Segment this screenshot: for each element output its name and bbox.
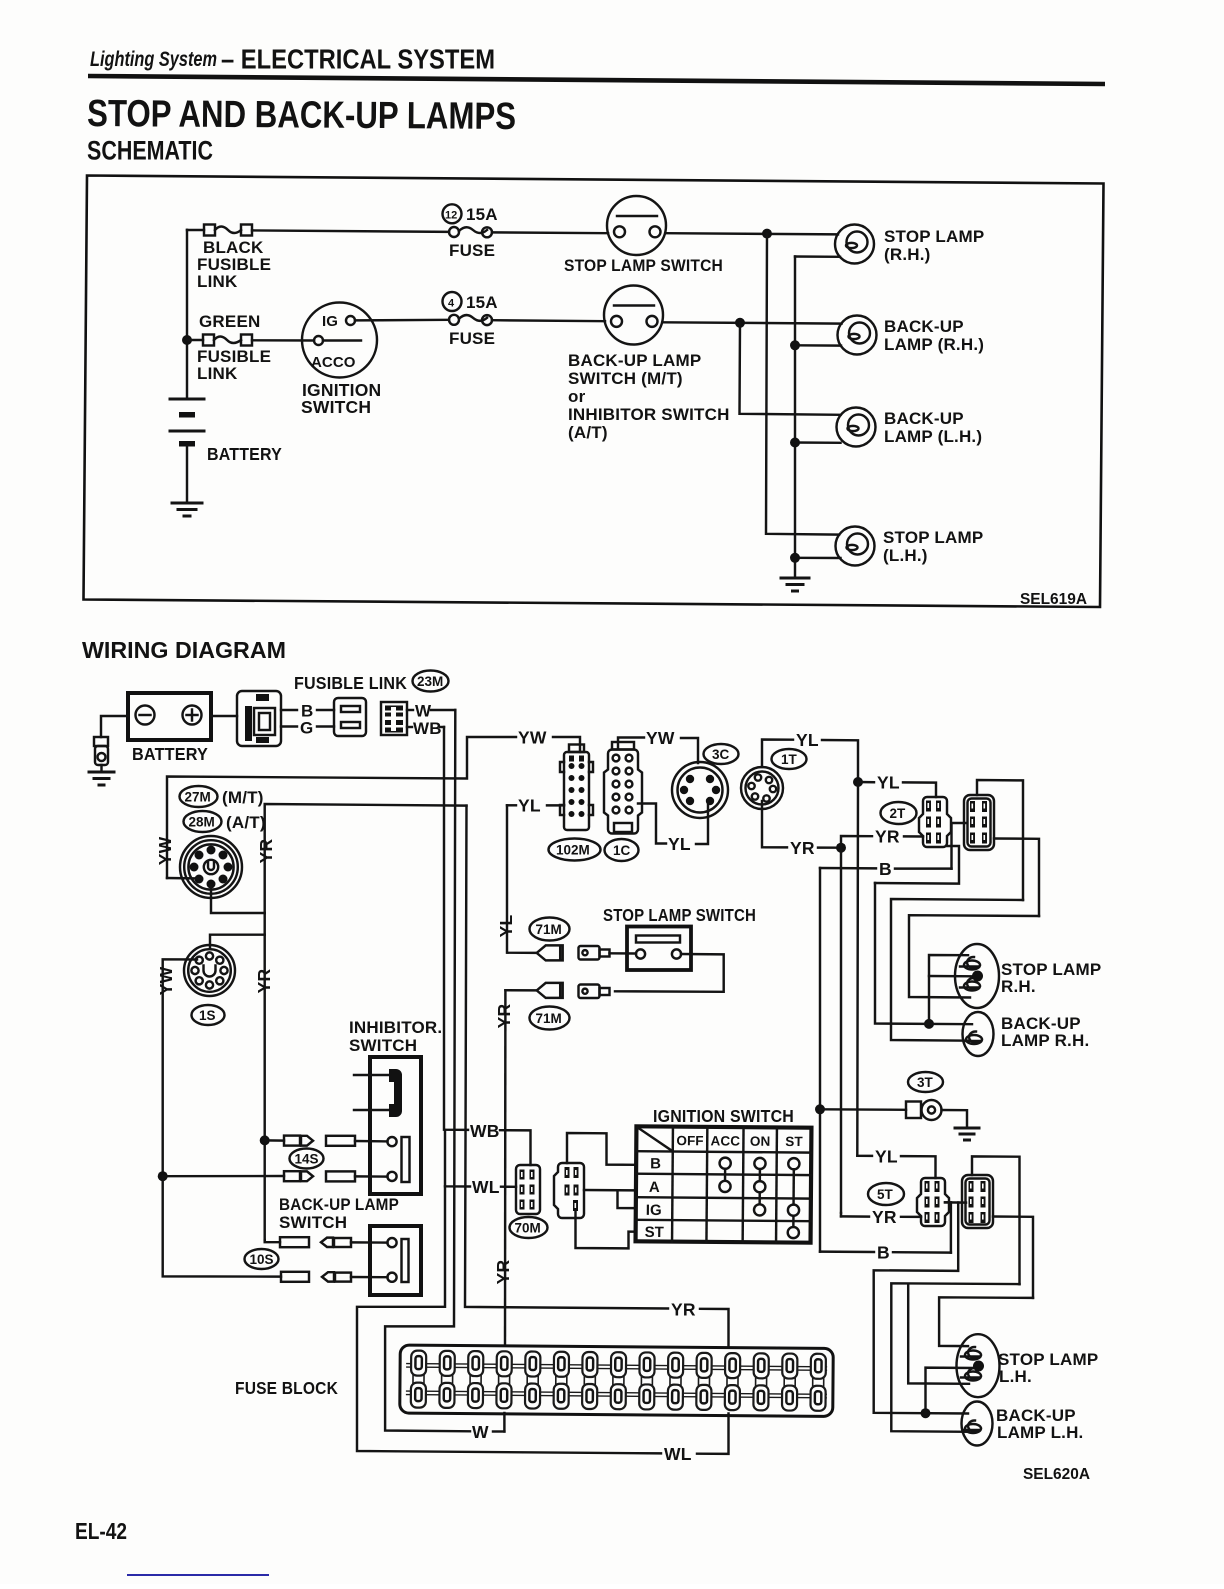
svg-text:SEL619A: SEL619A xyxy=(1020,591,1087,608)
male terminal YR xyxy=(579,985,610,999)
wire vertical to backup lamp LH xyxy=(740,323,841,415)
connector 102M xyxy=(560,745,593,831)
svg-text:BACK-UP: BACK-UP xyxy=(884,317,964,336)
node 3T junction xyxy=(815,1104,825,1114)
wire YR up to 2T row xyxy=(841,836,872,848)
wire B to riser xyxy=(895,867,952,869)
wire B long vertical xyxy=(819,868,821,1252)
svg-text:WB: WB xyxy=(470,1121,500,1141)
connector 70M xyxy=(516,1165,540,1214)
svg-text:WIRING DIAGRAM: WIRING DIAGRAM xyxy=(82,637,286,663)
label oval 28M and (A/T) xyxy=(184,811,266,832)
node junction top xyxy=(762,229,772,239)
connector 71M bullet YR xyxy=(537,983,563,998)
node YR junction xyxy=(836,843,846,853)
wire YR to 5T row xyxy=(840,1213,842,1216)
connector pair 14S row2 xyxy=(284,1171,355,1181)
wire ign A row xyxy=(584,1189,636,1192)
svg-text:B: B xyxy=(879,859,892,879)
svg-text:ACCO: ACCO xyxy=(311,354,356,371)
svg-text:W: W xyxy=(472,1422,489,1442)
svg-text:1S: 1S xyxy=(199,1008,216,1023)
connector pair 10S row1 xyxy=(280,1237,351,1247)
battery ground terminal xyxy=(94,737,108,771)
svg-text:STOP LAMP: STOP LAMP xyxy=(883,528,983,547)
ground (3T) xyxy=(955,1128,979,1140)
node ground bus j1 xyxy=(790,340,800,350)
svg-text:WB: WB xyxy=(413,719,442,738)
wire YR 1T drop xyxy=(762,801,787,847)
wire YL 1C to 3C xyxy=(638,804,666,844)
wire battery to fusible link xyxy=(211,715,237,717)
svg-text:YR: YR xyxy=(493,1259,513,1284)
wire 10S row2 lead xyxy=(163,1176,281,1276)
wire B dash xyxy=(317,709,334,711)
svg-text:YW: YW xyxy=(646,728,675,748)
node ground bus j3 xyxy=(790,553,800,563)
svg-text:70M: 70M xyxy=(515,1221,541,1236)
svg-text:102M: 102M xyxy=(556,843,590,858)
wire battery to green link xyxy=(187,339,203,341)
wire top row to fuse xyxy=(252,230,449,232)
wire YR into 2T xyxy=(904,835,923,838)
wire staircase backup RH top xyxy=(891,899,1023,1041)
wire 27M bottom to YR riser xyxy=(211,885,265,913)
connector 6pin A xyxy=(964,795,994,850)
wire stop LH lower terminal xyxy=(795,557,841,560)
connector 1S round xyxy=(184,945,235,996)
wire IG to fuse 4 xyxy=(355,319,449,322)
wire YR-S vertical xyxy=(263,913,265,1240)
svg-text:LAMP (L.H.): LAMP (L.H.) xyxy=(884,427,982,446)
svg-text:LINK: LINK xyxy=(197,364,238,383)
wire B to 6pinB riser xyxy=(893,1251,951,1254)
wire 14S row2 lead xyxy=(163,1175,284,1178)
svg-text:FUSE: FUSE xyxy=(449,241,495,260)
wire ign B row xyxy=(567,1133,636,1165)
svg-text:(M/T): (M/T) xyxy=(222,788,264,807)
svg-text:IG: IG xyxy=(322,313,338,330)
wire YR 71M lead xyxy=(505,989,536,992)
inhibitor terminal 2 xyxy=(387,1172,396,1181)
svg-text:YW: YW xyxy=(156,966,176,995)
label 102M oval xyxy=(549,839,601,861)
wire backup LH lower terminal xyxy=(795,441,841,444)
svg-text:IG: IG xyxy=(646,1202,662,1219)
header: Lighting System - ELECTRICAL SYSTEM xyxy=(90,44,495,75)
stop lamp switch box (wiring) xyxy=(627,927,691,971)
wire battery negative lead xyxy=(101,716,128,737)
svg-text:EL-42: EL-42 xyxy=(75,1518,127,1544)
backup lamp switch (schematic) xyxy=(604,286,663,345)
svg-text:IGNITION SWITCH: IGNITION SWITCH xyxy=(653,1106,794,1126)
svg-text:STOP LAMP SWITCH: STOP LAMP SWITCH xyxy=(564,256,723,275)
wire fuse to stop lamp switch xyxy=(492,231,608,234)
node ground bus j2 xyxy=(790,438,800,448)
wire YL into 5T top xyxy=(901,1156,936,1178)
svg-text:STOP LAMP SWITCH: STOP LAMP SWITCH xyxy=(603,905,756,925)
svg-text:INHIBITOR.: INHIBITOR. xyxy=(349,1018,442,1037)
node junction row2 xyxy=(735,318,745,328)
svg-text:FUSIBLE LINK: FUSIBLE LINK xyxy=(294,673,407,693)
svg-text:10S: 10S xyxy=(250,1252,274,1267)
wire 1S top to YR bus xyxy=(210,935,265,948)
wire ground bus vertical xyxy=(794,257,796,578)
svg-text:Lighting System: Lighting System xyxy=(90,48,217,71)
svg-text:INHIBITOR SWITCH: INHIBITOR SWITCH xyxy=(568,405,730,424)
svg-text:1T: 1T xyxy=(781,752,798,767)
node backup RH feed junction xyxy=(924,1019,934,1029)
wire staircase stop RH bottom xyxy=(909,915,1039,997)
fusible link mate connector xyxy=(334,698,366,736)
svg-text:28M: 28M xyxy=(189,815,215,830)
svg-text:B: B xyxy=(877,1242,890,1262)
wire stop RH center terminal xyxy=(929,975,974,978)
wire 3T to ground xyxy=(942,1110,968,1127)
connector 71M bullet YL xyxy=(537,945,563,960)
svg-text:YR: YR xyxy=(790,838,815,858)
svg-text:SEL620A: SEL620A xyxy=(1023,1466,1090,1483)
wire YL long vertical xyxy=(856,782,859,1156)
ignition switch (schematic) xyxy=(302,303,377,378)
wire WL drop and label xyxy=(445,1130,470,1187)
connector 27M/28M round xyxy=(180,836,242,898)
label oval 27M and (M/T) xyxy=(180,786,264,807)
node 14S top junction xyxy=(260,1135,270,1145)
wire staircase stop LH bottom xyxy=(908,1284,969,1384)
backup lamp switch box xyxy=(370,1226,421,1295)
fuse block fuses xyxy=(411,1351,426,1408)
svg-text:YR: YR xyxy=(875,827,900,847)
wire WL routing bus xyxy=(357,1186,661,1453)
backup lamp LH bulb (schematic) xyxy=(837,408,876,447)
connector pair 10S row2 xyxy=(281,1272,351,1282)
wire 6pinA mid pin B xyxy=(952,823,967,869)
wire green link to ignition switch xyxy=(252,339,314,342)
wire fuse to backup switch xyxy=(492,320,605,321)
wire riser to mid pins xyxy=(945,1202,951,1252)
connector 5T xyxy=(917,1178,949,1226)
node backup LH feed junction xyxy=(921,1408,931,1418)
wire YR 71M vertical to fuse block xyxy=(504,990,507,1345)
wire YL into 2T top xyxy=(903,782,936,797)
svg-text:23M: 23M xyxy=(417,674,443,689)
wire 14S row1 to inhibitor xyxy=(355,1140,388,1143)
svg-text:B: B xyxy=(650,1155,661,1172)
wire YR vertical bus xyxy=(465,806,668,1309)
label 1T oval xyxy=(772,749,807,769)
wire YR into 5T xyxy=(901,1216,921,1219)
node 14S bottom junction xyxy=(158,1171,168,1181)
wire vertical to stop lamp LH xyxy=(766,234,839,535)
schematic frame box xyxy=(84,176,1104,608)
wire YL bus to 71M xyxy=(507,805,537,953)
wire YL 1T riser xyxy=(762,740,793,768)
svg-text:YR: YR xyxy=(671,1300,696,1320)
svg-text:LAMP L.H.: LAMP L.H. xyxy=(997,1423,1084,1442)
label 3C oval xyxy=(704,744,739,764)
wire ign ST row xyxy=(576,1211,637,1248)
stop lamp RH bulb xyxy=(955,944,999,1008)
connector 3C round xyxy=(672,762,728,818)
svg-text:FUSE BLOCK: FUSE BLOCK xyxy=(235,1378,338,1398)
battery (schematic) xyxy=(170,399,204,502)
svg-text:15A: 15A xyxy=(466,205,498,224)
wire B bottom row xyxy=(820,1250,874,1253)
svg-text:SWITCH (M/T): SWITCH (M/T) xyxy=(568,369,683,388)
svg-text:SWITCH: SWITCH xyxy=(279,1213,347,1232)
svg-text:G: G xyxy=(300,719,313,738)
wire 6pinB top feed xyxy=(972,1156,1020,1284)
svg-text:YW: YW xyxy=(155,836,175,865)
label 1C oval xyxy=(605,839,639,861)
label 10S oval xyxy=(245,1249,279,1269)
label 14S oval xyxy=(290,1149,324,1169)
wire stop RH top terminal xyxy=(929,955,968,1024)
svg-text:or: or xyxy=(568,387,586,406)
wire YR label lead (5T) xyxy=(841,1215,869,1218)
svg-text:5T: 5T xyxy=(877,1187,894,1202)
label 71M oval top xyxy=(530,918,570,941)
wire 1S left pin down xyxy=(163,959,197,1176)
label 71M oval bottom xyxy=(530,1007,570,1030)
svg-text:YL: YL xyxy=(668,834,691,854)
wire YW to 3C xyxy=(681,738,698,763)
svg-text:WL: WL xyxy=(664,1444,692,1464)
wire switch to backup lamp RH xyxy=(663,322,842,323)
wire staircase backup LH bottom xyxy=(891,1283,1019,1432)
svg-text:BATTERY: BATTERY xyxy=(132,744,208,764)
wire 10S row2 to switch xyxy=(351,1276,388,1279)
label 3T oval xyxy=(908,1072,943,1092)
wire W bottom label segment xyxy=(493,1430,504,1432)
ground (schematic right) xyxy=(781,578,809,591)
svg-text:14S: 14S xyxy=(295,1152,319,1167)
wire 14S row1 lead xyxy=(265,1139,284,1142)
stop lamp RH bulb (schematic) xyxy=(835,225,874,264)
fuse block xyxy=(400,1345,834,1416)
backup switch terminal 2 xyxy=(387,1273,396,1282)
svg-text:71M: 71M xyxy=(536,922,562,937)
svg-text:1C: 1C xyxy=(613,843,631,858)
wire YW riser from 27M xyxy=(167,737,516,878)
connector W/WB xyxy=(381,702,407,735)
ground (battery schematic) xyxy=(172,503,202,516)
wire G lead xyxy=(281,725,297,727)
wire YR into fuse block xyxy=(700,1309,729,1346)
wire W vertical bus xyxy=(385,710,470,1431)
wire YW 1C riser xyxy=(618,738,644,750)
wire B row xyxy=(820,867,876,870)
footer blue rule xyxy=(127,1574,269,1576)
svg-text:– ELECTRICAL SYSTEM: – ELECTRICAL SYSTEM xyxy=(221,44,495,75)
svg-text:15A: 15A xyxy=(466,293,498,312)
label oval 23M xyxy=(413,671,449,692)
backup lamp LH bulb xyxy=(962,1402,993,1446)
wire WL to 70M xyxy=(501,1185,516,1188)
wire 14S row2 to inhibitor xyxy=(355,1175,388,1178)
svg-text:(A/T): (A/T) xyxy=(226,813,266,832)
svg-text:STOP LAMP: STOP LAMP xyxy=(884,227,984,246)
fuse elements xyxy=(411,1351,826,1411)
ground (battery wiring) xyxy=(89,772,114,785)
wire 6pinA bottom-right pin xyxy=(994,839,1039,917)
svg-text:BACK-UP LAMP: BACK-UP LAMP xyxy=(279,1195,399,1214)
svg-text:ST: ST xyxy=(785,1134,803,1149)
svg-text:A: A xyxy=(649,1179,660,1196)
svg-text:BACK-UP: BACK-UP xyxy=(884,409,964,428)
backup lamp RH bulb (schematic) xyxy=(838,316,877,355)
connector 6pin B xyxy=(962,1175,993,1228)
svg-text:YW: YW xyxy=(518,728,547,748)
wire stop RH lower terminal xyxy=(795,255,840,258)
wire 5T-6pinB mid link xyxy=(945,1201,966,1204)
svg-text:OFF: OFF xyxy=(676,1133,703,1148)
svg-text:YR: YR xyxy=(872,1207,897,1227)
wire to 3T terminal xyxy=(820,1108,906,1111)
wire 6pinA top feed xyxy=(977,780,1023,900)
wire W into fuse block xyxy=(503,1413,505,1432)
stop lamp LH bulb (schematic) xyxy=(836,527,875,566)
wire WB lead xyxy=(407,726,412,728)
ignition harness connector xyxy=(554,1163,584,1218)
svg-text:YR: YR xyxy=(256,838,276,863)
wire 10S row1 to switch xyxy=(351,1241,388,1244)
wire YL into 3C bottom xyxy=(696,801,708,844)
svg-text:YL: YL xyxy=(877,773,900,793)
wire WB to corner xyxy=(440,726,444,728)
svg-text:YR: YR xyxy=(494,1003,514,1028)
svg-text:12: 12 xyxy=(445,210,457,222)
svg-text:R.H.: R.H. xyxy=(1001,977,1036,996)
wire YL 102M lead xyxy=(507,804,516,806)
label 1S oval xyxy=(192,1005,225,1025)
wire YL into 102M xyxy=(547,804,564,806)
svg-text:L.H.: L.H. xyxy=(999,1367,1032,1386)
svg-text:BACK-UP LAMP: BACK-UP LAMP xyxy=(568,351,701,370)
connector 2T xyxy=(919,797,951,847)
svg-text:4: 4 xyxy=(448,298,455,310)
node battery junction xyxy=(182,335,192,345)
inhibitor switch box xyxy=(370,1057,421,1194)
fuse 4 15A xyxy=(443,292,498,348)
wire staircase stub xyxy=(875,846,959,884)
wire backup RH lower terminal xyxy=(795,344,841,347)
wire 27M left pin xyxy=(167,877,201,880)
wire YR long vertical xyxy=(840,848,842,1213)
connector 1T round xyxy=(741,767,783,809)
wire stop LH center riser xyxy=(926,1368,976,1414)
connector 1C xyxy=(604,742,642,834)
wire staircase stop LH top xyxy=(939,1297,1033,1346)
svg-text:27M: 27M xyxy=(185,790,211,805)
svg-text:YL: YL xyxy=(796,730,819,750)
wire G dash xyxy=(317,725,334,727)
wire WL into fuse block xyxy=(697,1414,729,1454)
wire 10S row1 lead xyxy=(265,1240,280,1242)
svg-text:LAMP (R.H.): LAMP (R.H.) xyxy=(884,335,984,354)
wire B lead xyxy=(281,709,297,711)
svg-text:LINK: LINK xyxy=(197,272,238,291)
svg-text:YL: YL xyxy=(518,796,541,816)
connector pair 14S row1 xyxy=(284,1136,355,1146)
wire switch to stop lamp RH xyxy=(666,233,839,234)
inhibitor terminal 1 xyxy=(387,1137,396,1146)
stop lamp switch (schematic) xyxy=(607,196,666,255)
header rule xyxy=(88,76,1105,84)
wire YL branch to 2T xyxy=(858,781,874,784)
label 5T oval xyxy=(868,1183,904,1205)
svg-text:STOP AND BACK-UP LAMPS: STOP AND BACK-UP LAMPS xyxy=(87,93,516,138)
terminal 3T xyxy=(906,1100,942,1120)
svg-text:W: W xyxy=(415,702,432,721)
inhibitor switch contact bar xyxy=(354,1069,402,1117)
svg-text:3C: 3C xyxy=(712,747,730,762)
svg-text:SCHEMATIC: SCHEMATIC xyxy=(87,136,213,166)
svg-text:3T: 3T xyxy=(917,1075,934,1090)
svg-text:(A/T): (A/T) xyxy=(568,423,608,442)
wire YR to junction xyxy=(818,846,841,849)
wire stop lamp switch return xyxy=(615,954,724,992)
ignition switch table xyxy=(636,1126,812,1242)
wire YW into 102M xyxy=(553,737,580,752)
svg-text:YL: YL xyxy=(496,915,516,938)
label 70M oval xyxy=(510,1217,548,1238)
stop lamp LH bulb xyxy=(957,1334,1000,1397)
wire YL to bus corner xyxy=(822,740,858,782)
fuse 12 15A xyxy=(443,204,498,260)
svg-text:(L.H.): (L.H.) xyxy=(883,546,928,565)
wire battery bus vertical xyxy=(186,230,188,398)
svg-text:ST: ST xyxy=(645,1224,665,1241)
svg-text:LAMP R.H.: LAMP R.H. xyxy=(1001,1031,1089,1050)
black fusible link symbol xyxy=(204,225,252,236)
svg-text:2T: 2T xyxy=(890,806,907,821)
wire W to corner xyxy=(431,709,455,711)
svg-text:ON: ON xyxy=(750,1134,771,1149)
svg-text:71M: 71M xyxy=(536,1011,562,1026)
svg-text:WL: WL xyxy=(472,1177,500,1197)
backup switch terminal 1 xyxy=(387,1238,396,1247)
green fusible link symbol xyxy=(203,335,252,346)
wire staircase backup RH bottom xyxy=(875,883,972,1024)
wire YL to 5T row xyxy=(857,1155,872,1158)
wire 6pinB bottom-right pin xyxy=(993,1217,1033,1298)
wire WB to 70M xyxy=(500,1130,531,1165)
battery (wiring) xyxy=(128,693,211,740)
inhibitor contact strip xyxy=(402,1137,410,1182)
fusible link connector 23M xyxy=(237,691,281,746)
wire P3 drop xyxy=(874,1203,968,1414)
label BACK-UP LAMP SWITCH (M/T) or INHIBITOR SWITCH (A/T) xyxy=(568,351,730,442)
svg-text:SWITCH: SWITCH xyxy=(349,1036,417,1055)
svg-text:(R.H.): (R.H.) xyxy=(884,245,931,264)
svg-text:ACC: ACC xyxy=(710,1133,740,1148)
svg-text:FUSE: FUSE xyxy=(449,329,495,348)
svg-text:SWITCH: SWITCH xyxy=(301,397,371,417)
wire ign IG row xyxy=(618,1190,637,1208)
wire YR horizontal to bus xyxy=(265,804,467,913)
label 2T oval xyxy=(881,802,917,824)
wire top row left xyxy=(187,229,204,231)
wire W lead xyxy=(407,709,413,711)
svg-text:BATTERY: BATTERY xyxy=(207,444,282,464)
svg-text:GREEN: GREEN xyxy=(199,312,260,331)
male terminal YL xyxy=(579,946,610,960)
backup switch contact strip xyxy=(402,1239,409,1282)
svg-text:YL: YL xyxy=(875,1146,898,1166)
wire WB vertical bus xyxy=(444,727,468,1130)
